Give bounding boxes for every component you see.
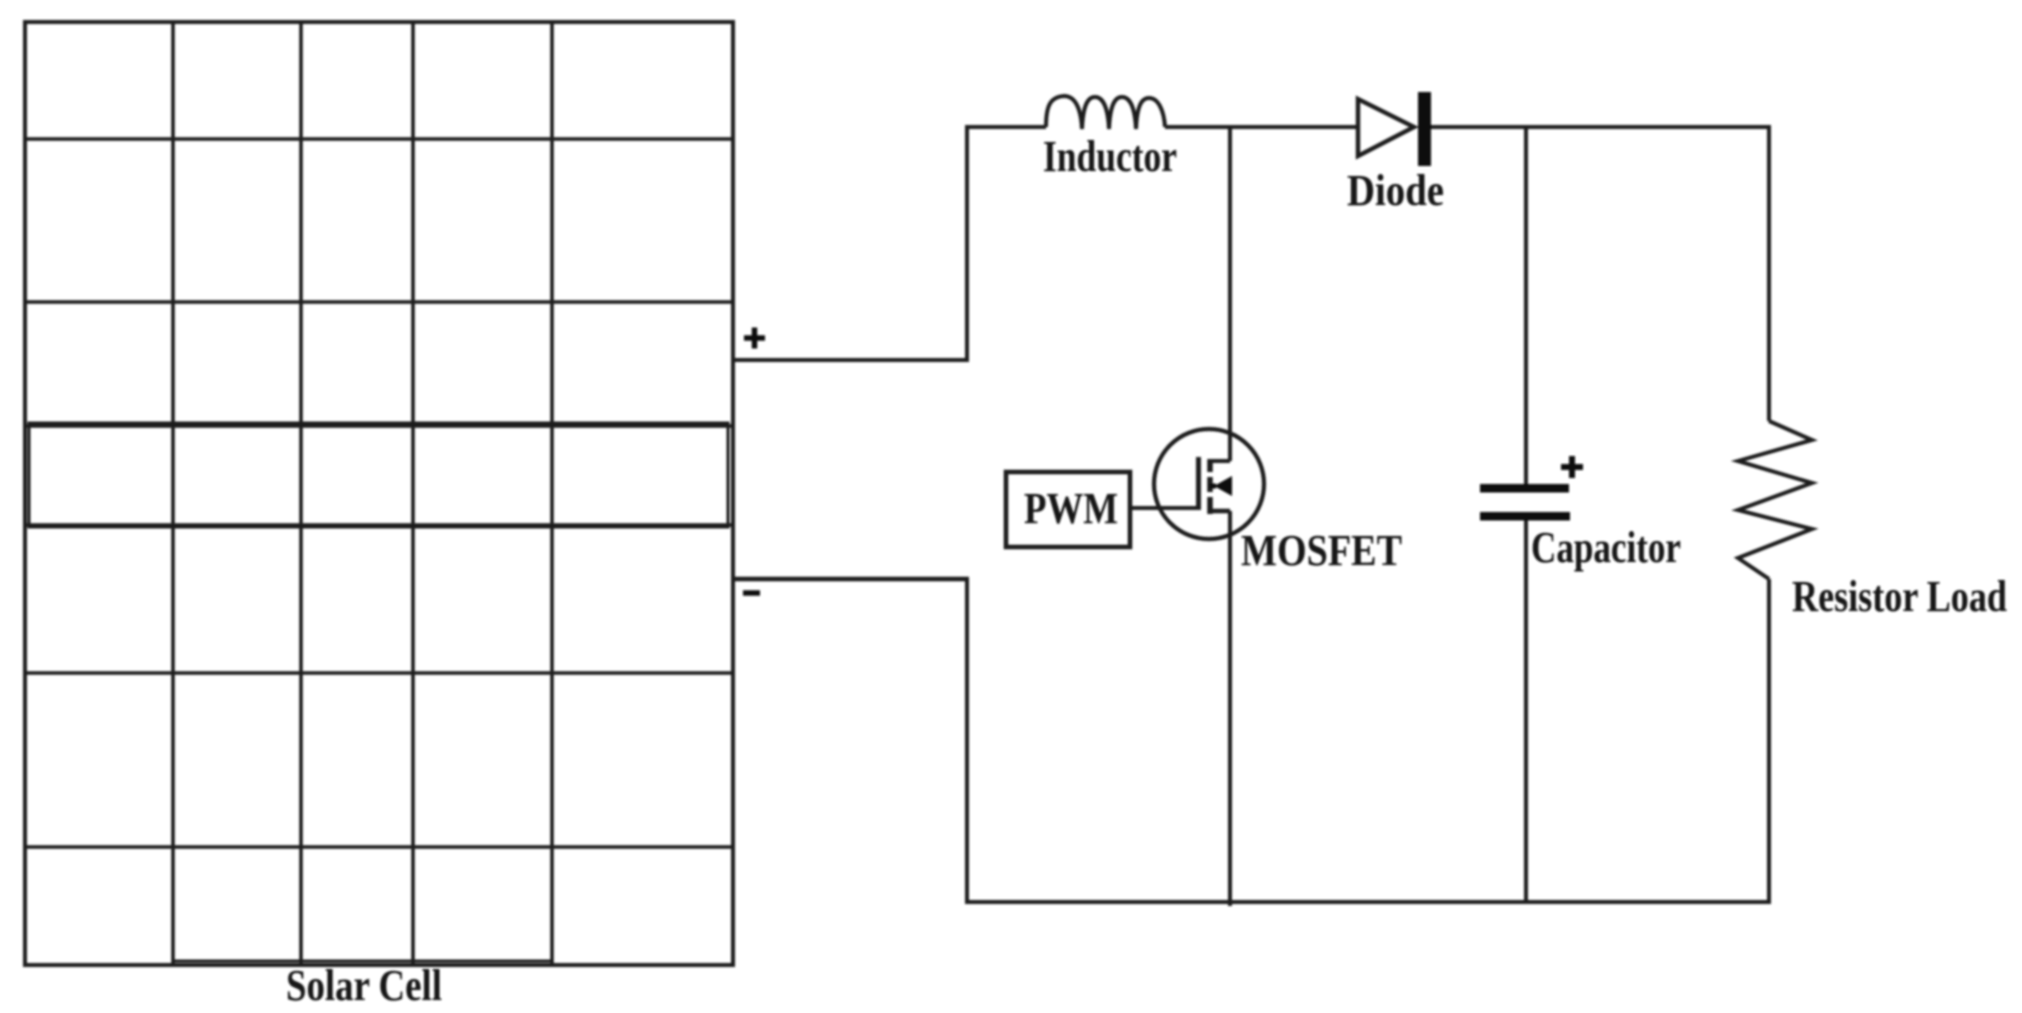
resistor load zigzag — [1738, 421, 1812, 579]
MOSFET Q1 circle — [1154, 429, 1264, 539]
solar cell outer frame — [25, 22, 733, 965]
plus sign solar output — [744, 328, 765, 349]
solar cell row line 4 — [25, 523, 733, 527]
solar cell bottom inner line — [173, 960, 552, 963]
wire capacitor bottom vertical — [1524, 519, 1528, 902]
diode D1 triangle — [1358, 99, 1414, 156]
solar cell row line 6 — [25, 845, 733, 849]
MOSFET drain jog — [1210, 459, 1230, 463]
wire MOSFET drain vertical — [1228, 127, 1232, 461]
wire - terminal horizontal — [733, 577, 969, 582]
solar cell column line 1 — [171, 22, 175, 965]
PWM box — [1006, 472, 1130, 547]
wire + riser vertical — [965, 125, 969, 362]
svg-text:Diode: Diode — [1347, 167, 1444, 215]
wire + terminal horizontal — [733, 358, 969, 362]
solar cell row 4 offset outline — [29, 423, 728, 527]
MOSFET gate wire from PWM — [1130, 506, 1199, 510]
MOSFET channel segment top — [1207, 459, 1213, 472]
capacitor C1 top plate — [1480, 484, 1569, 493]
svg-text:Inductor: Inductor — [1043, 133, 1177, 181]
wire - drop vertical — [965, 579, 969, 904]
svg-text:Resistor Load: Resistor Load — [1792, 573, 2007, 621]
solar cell row line 3 — [25, 424, 733, 428]
wire resistor top vertical — [1767, 125, 1771, 421]
solar cell column line 3 — [411, 22, 415, 965]
MOSFET channel segment middle — [1207, 477, 1213, 492]
solar cell column line 2 — [299, 22, 303, 965]
solar cell row line 5 — [25, 671, 733, 675]
MOSFET channel segment bottom — [1207, 497, 1213, 514]
svg-text:Solar Cell: Solar Cell — [286, 962, 442, 1010]
solar cell column line 4 — [550, 22, 554, 965]
wire diode to top-right corner — [1430, 125, 1771, 129]
wire capacitor top vertical — [1524, 127, 1528, 486]
plus sign capacitor — [1561, 456, 1583, 478]
solar cell row line 2 — [25, 300, 733, 304]
diode D1 cathode bar — [1418, 92, 1431, 166]
svg-text:Capacitor: Capacitor — [1531, 524, 1681, 572]
MOSFET gate bar — [1196, 457, 1201, 510]
svg-text:MOSFET: MOSFET — [1241, 527, 1402, 575]
svg-text:PWM: PWM — [1024, 485, 1118, 533]
MOSFET source jog — [1210, 509, 1230, 514]
wire bottom bus — [965, 900, 1771, 904]
capacitor C1 bottom plate — [1480, 512, 1570, 521]
minus sign solar output — [743, 590, 760, 596]
solar cell row line 1 — [25, 137, 733, 141]
wire MOSFET source vertical — [1228, 511, 1232, 906]
wire top bus — [965, 125, 1046, 129]
MOSFET body arrow — [1214, 476, 1232, 496]
inductor L1 — [1046, 96, 1165, 129]
wire resistor bottom vertical — [1767, 579, 1771, 904]
wire inductor to diode — [1165, 125, 1358, 129]
